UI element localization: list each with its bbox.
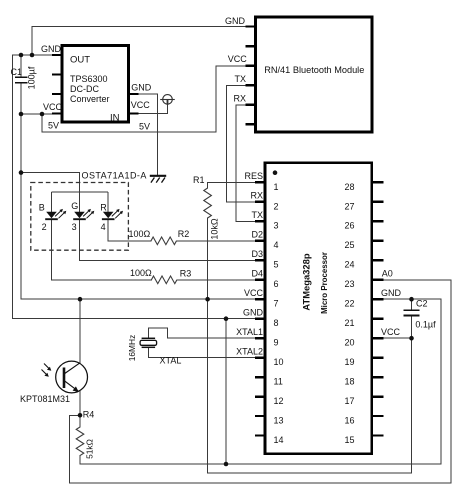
node 5V branch junction: [40, 112, 45, 117]
svg-text:0.1µf: 0.1µf: [415, 320, 436, 330]
wire GND top rail to Bluetooth module: [32, 26, 246, 28]
svg-text:C1: C1: [11, 67, 23, 77]
svg-text:OSTA71A1D-A: OSTA71A1D-A: [82, 171, 147, 181]
svg-text:Micro Processor: Micro Processor: [320, 252, 329, 314]
pin 1 orientation dot: [273, 170, 278, 175]
svg-text:R2: R2: [178, 229, 190, 239]
node R1-VCC junction: [205, 297, 210, 302]
wire VCC rail down to ATMega VCC line: [21, 114, 265, 299]
wire GND line at TPS: [13, 54, 53, 56]
svg-text:RX: RX: [250, 191, 263, 201]
svg-text:D3: D3: [251, 249, 263, 259]
wire LED anode feed: [21, 173, 80, 193]
svg-text:5: 5: [274, 260, 279, 270]
svg-text:7: 7: [274, 299, 279, 309]
svg-text:XTAL2: XTAL2: [236, 346, 263, 356]
svg-text:GND: GND: [225, 16, 246, 26]
wire 5V branch from VCC line: [41, 114, 43, 132]
node collector-VCC junction: [78, 297, 83, 302]
resistor R3 100Ohm horizontal zigzag: [151, 276, 176, 284]
svg-text:23: 23: [345, 279, 355, 289]
svg-text:R: R: [100, 203, 107, 213]
transistor Q1 KPT081M31 phototransistor: [42, 361, 88, 393]
svg-text:GND: GND: [381, 288, 402, 298]
svg-text:IN: IN: [110, 113, 120, 124]
wire R4 bottom to GND bottom rail up to ATMega GND pin22: [80, 299, 441, 464]
wire ATMega GND pin8 drop to GND bottom rail: [225, 319, 227, 464]
svg-text:100Ω: 100Ω: [130, 268, 152, 278]
LED R red channel: [102, 209, 123, 219]
svg-text:12: 12: [274, 396, 284, 406]
svg-text:4: 4: [274, 240, 279, 250]
svg-text:4: 4: [101, 222, 106, 232]
wire LED B cathode to R3: [52, 220, 152, 280]
ground symbol below TPS6300: [150, 176, 166, 183]
svg-text:17: 17: [345, 396, 355, 406]
ATMega left pin stubs 1-14: [255, 182, 265, 435]
svg-text:XTAL1: XTAL1: [236, 327, 263, 337]
node emitter-R4-A0 junction: [78, 413, 83, 418]
svg-text:1: 1: [274, 182, 279, 192]
svg-text:GND: GND: [243, 308, 264, 318]
node C1-GND junction: [19, 53, 24, 58]
svg-text:10kΩ: 10kΩ: [209, 218, 219, 240]
svg-text:VCC: VCC: [43, 102, 63, 112]
node GND line junction: [224, 316, 229, 321]
svg-text:TX: TX: [251, 210, 263, 220]
wire ATMega VCC pin20 to C2: [372, 337, 412, 339]
svg-text:15: 15: [345, 435, 355, 445]
svg-text:16MHz: 16MHz: [127, 335, 137, 362]
svg-text:B: B: [39, 203, 45, 213]
svg-text:D2: D2: [251, 230, 263, 240]
node top GND rail junction: [30, 53, 35, 58]
svg-text:18: 18: [345, 377, 355, 387]
wire TPS GND output to ground symbol: [139, 94, 158, 175]
svg-text:11: 11: [274, 377, 283, 387]
svg-text:21: 21: [345, 318, 355, 328]
svg-text:R1: R1: [193, 175, 205, 185]
svg-text:100Ω: 100Ω: [129, 229, 151, 239]
node C2 bottom junction: [409, 336, 414, 341]
wire Bluetooth TX to ATMega RX: [226, 85, 265, 202]
IC U2 RN/41 Bluetooth Module: [246, 17, 373, 132]
wire LED B anode drop: [51, 192, 53, 212]
svg-text:R3: R3: [180, 268, 192, 278]
svg-text:RN/41 Bluetooth Module: RN/41 Bluetooth Module: [264, 65, 364, 75]
svg-text:C2: C2: [416, 298, 428, 308]
wire LED R cathode to R2: [108, 220, 151, 241]
resistor R4 51kOhm vertical zigzag: [76, 427, 84, 456]
svg-text:26: 26: [345, 221, 355, 231]
wire 5V line to Bluetooth VCC: [42, 66, 246, 132]
svg-text:19: 19: [345, 357, 355, 367]
svg-text:14: 14: [274, 435, 284, 445]
svg-text:GND: GND: [41, 44, 62, 54]
svg-text:VCC: VCC: [228, 54, 248, 64]
svg-text:20: 20: [345, 338, 355, 348]
svg-text:8: 8: [274, 318, 279, 328]
wire LED R anode drop: [107, 192, 109, 212]
svg-text:A0: A0: [382, 269, 393, 279]
svg-text:3: 3: [274, 221, 279, 231]
node C2 top junction: [409, 297, 414, 302]
ATMega left pin net labels: [236, 171, 263, 356]
node GND bottom rail junction: [224, 462, 229, 467]
svg-text:9: 9: [274, 338, 279, 348]
capacitor C2 plates: [404, 310, 420, 315]
LED package OSTA71A1D-A dashed outline: [31, 183, 129, 251]
IC U3 ATMega328p microprocessor: [236, 163, 383, 454]
svg-text:100µf: 100µf: [26, 66, 36, 89]
svg-text:TX: TX: [234, 74, 246, 84]
svg-text:25: 25: [345, 240, 355, 250]
wire transistor emitter to R4 node: [79, 391, 81, 427]
wire C1 bottom lead: [20, 84, 22, 114]
svg-text:VCC: VCC: [244, 288, 264, 298]
svg-text:2: 2: [274, 201, 279, 211]
resistor R1 10kOhm vertical zigzag: [204, 188, 212, 218]
svg-text:G: G: [71, 201, 78, 211]
ATMega pin numbers 1-14: [274, 182, 284, 445]
wire LED G anode drop: [79, 192, 81, 212]
svg-text:RES: RES: [244, 171, 263, 181]
wire transistor collector to VCC line: [79, 299, 81, 362]
crystal XTAL 16MHz plates and body: [140, 338, 157, 347]
wire C1 top lead: [20, 55, 22, 76]
svg-text:6: 6: [274, 279, 279, 289]
wire C2 top lead from GND line: [411, 299, 413, 309]
capacitor C1 plates: [15, 77, 28, 82]
ATMega pin numbers 28-15: [345, 182, 355, 445]
svg-text:10: 10: [274, 357, 284, 367]
svg-text:22: 22: [345, 299, 355, 309]
svg-text:VCC: VCC: [381, 327, 401, 337]
svg-text:GND: GND: [131, 83, 152, 93]
wire R3 to ATMega D4: [177, 279, 265, 281]
LED B blue channel: [45, 209, 66, 219]
wire emitter node to A0 bottom rail up to ATMega A0 pin23: [70, 280, 451, 483]
wire Bluetooth RX to ATMega TX: [236, 105, 265, 222]
svg-text:D4: D4: [251, 269, 263, 279]
wire RES pin to R1 top: [208, 182, 265, 188]
svg-text:Converter: Converter: [70, 94, 110, 104]
svg-text:DC-DC: DC-DC: [70, 84, 99, 94]
svg-text:5V: 5V: [139, 122, 150, 132]
node C1-VCC junction: [19, 112, 24, 117]
wire XTAL1 to crystal top: [148, 328, 265, 339]
svg-text:TPS6300: TPS6300: [70, 74, 108, 84]
svg-text:16: 16: [345, 415, 355, 425]
wire LED G cathode to ATMega D3: [80, 220, 266, 260]
wire crystal bottom to XTAL2: [148, 347, 265, 357]
svg-text:27: 27: [345, 201, 355, 211]
svg-text:ATMega328p: ATMega328p: [301, 253, 312, 310]
wire R1 bottom through VCC junction down to bottom VCC rail: [208, 218, 412, 473]
svg-text:KPT081M31: KPT081M31: [20, 394, 70, 404]
svg-text:28: 28: [345, 182, 355, 192]
wire GND left rail down to ATMega GND line: [13, 55, 266, 319]
svg-text:5V: 5V: [48, 121, 59, 131]
wire LED anode bus: [52, 191, 109, 193]
svg-text:XTAL: XTAL: [160, 356, 182, 366]
wire C2 bottom lead: [411, 316, 413, 338]
svg-text:VCC: VCC: [131, 100, 151, 110]
svg-text:51kΩ: 51kΩ: [84, 439, 94, 459]
ATMega right pin stubs 28-15: [372, 182, 384, 435]
svg-text:RX: RX: [233, 94, 246, 104]
power symbol at TPS VCC output: [160, 95, 175, 105]
wire VCC line TPS left: [21, 113, 52, 115]
node LED feed junction: [19, 170, 24, 175]
svg-text:24: 24: [345, 260, 355, 270]
svg-text:3: 3: [72, 222, 77, 232]
svg-text:R4: R4: [83, 410, 95, 420]
IC U1 TPS6300 DC-DC converter: [52, 46, 139, 124]
resistor R2 100Ohm horizontal zigzag: [151, 237, 176, 245]
wire TPS VCC output to power symbol: [139, 104, 168, 114]
wire R2 to ATMega D2: [177, 240, 266, 242]
wire GND top drop: [31, 27, 33, 56]
svg-text:OUT: OUT: [70, 55, 90, 66]
svg-text:13: 13: [274, 415, 284, 425]
LED G green channel: [73, 209, 94, 219]
svg-text:2: 2: [42, 222, 47, 232]
